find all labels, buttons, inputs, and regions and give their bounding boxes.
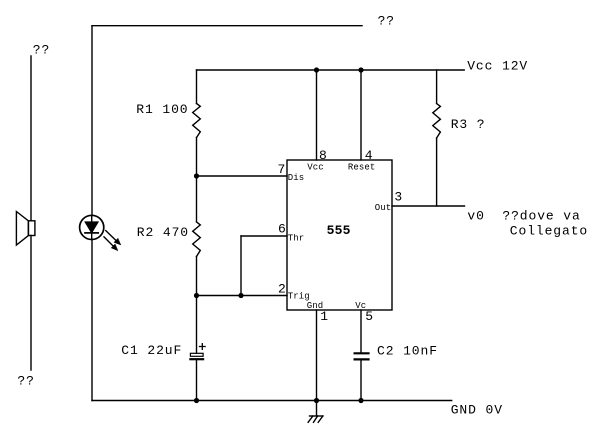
label 555 <box>327 223 351 238</box>
svg-text:5: 5 <box>365 309 374 324</box>
svg-text:555: 555 <box>327 223 351 238</box>
resistor R1 <box>193 104 201 138</box>
wire pin4 vertical <box>360 70 362 160</box>
pin 3 name Out <box>375 203 392 213</box>
node ??dove va label <box>502 209 580 224</box>
svg-text:2: 2 <box>278 282 287 297</box>
label R2 470 <box>137 225 189 240</box>
svg-text:C2 10nF: C2 10nF <box>377 344 438 359</box>
wire pin2 horizontal <box>197 295 288 297</box>
node junction dot rail gnd <box>314 398 319 403</box>
pin 2 name Trig <box>288 292 310 302</box>
svg-text:Out: Out <box>375 203 392 213</box>
pin 6 number <box>278 222 287 237</box>
node junction dot Vcc-pin8 <box>314 67 319 72</box>
pin 5 number <box>365 309 374 324</box>
svg-text:??: ?? <box>17 374 34 389</box>
svg-text:C1 22uF: C1 22uF <box>121 343 182 358</box>
wire LED branch vertical <box>91 26 93 401</box>
node ?? top label <box>378 14 395 29</box>
wire R3 branch top <box>436 70 438 104</box>
wire pin8 vertical <box>316 70 318 160</box>
wire pin3 out horizontal <box>392 205 465 207</box>
ground symbol <box>308 416 323 422</box>
label R3 ? <box>451 117 486 132</box>
wire pin7 to R1R2 branch <box>197 175 288 177</box>
node ?? speaker top label <box>33 43 50 58</box>
pin 6 name Thr <box>288 234 305 244</box>
svg-text:Trig: Trig <box>288 292 310 302</box>
node junction dot rail C1 <box>194 398 199 403</box>
node junction dot pin2 branch left <box>194 293 199 298</box>
svg-text:GND 0V: GND 0V <box>451 403 503 418</box>
svg-text:Thr: Thr <box>288 234 305 244</box>
wire R1 branch top <box>196 70 198 104</box>
label C1 22uF <box>121 343 182 358</box>
pin 1 name Gnd <box>307 301 324 311</box>
svg-text:Reset: Reset <box>348 162 376 172</box>
wire Vcc rail <box>197 69 465 71</box>
node junction dot pin2 Thr branch <box>238 293 243 298</box>
resistor R2 <box>193 222 201 257</box>
pin 5 name Vc <box>355 301 366 311</box>
capacitor C2 <box>355 353 369 359</box>
node Vcc 12V label <box>467 58 528 73</box>
pin 2 number <box>278 282 287 297</box>
LED D1 <box>80 215 121 250</box>
node ?? speaker bottom label <box>17 374 34 389</box>
node junction dot rail C2 <box>358 398 363 403</box>
label R1 100 <box>136 102 188 117</box>
svg-text:v0: v0 <box>467 209 484 224</box>
svg-text:Vcc: Vcc <box>307 162 324 172</box>
label C2 10nF <box>377 344 438 359</box>
wire speaker lower vertical <box>30 236 32 371</box>
svg-text:Vc: Vc <box>355 301 366 311</box>
pin 8 name Vcc <box>307 162 324 172</box>
node GND 0V label <box>451 403 503 418</box>
svg-text:Vcc 12V: Vcc 12V <box>467 58 528 73</box>
node Collegato label <box>510 224 588 239</box>
wire top dangling net <box>92 25 362 27</box>
svg-text:4: 4 <box>365 148 374 163</box>
svg-text:6: 6 <box>278 222 287 237</box>
wire pin5 vertical upper <box>360 310 362 353</box>
wire Thr branch vertical <box>240 236 242 296</box>
capacitor C1 <box>190 344 205 360</box>
wire between R1 and R2 <box>196 138 198 222</box>
pin 4 name Reset <box>348 162 376 172</box>
pin 7 number <box>278 162 287 177</box>
speaker LS1 <box>16 212 35 246</box>
svg-text:Gnd: Gnd <box>307 301 324 311</box>
pin 7 name Dis <box>288 173 305 183</box>
node junction dot pin7 branch <box>194 173 199 178</box>
resistor R3 <box>433 104 441 139</box>
svg-text:R1 100: R1 100 <box>136 102 188 117</box>
svg-text:3: 3 <box>394 190 403 205</box>
wire pin6 horizontal <box>241 235 287 237</box>
pin 4 number <box>365 148 374 163</box>
svg-text:R3 ?: R3 ? <box>451 117 486 132</box>
node junction dot Vcc-pin4 <box>358 67 363 72</box>
svg-text:??: ?? <box>33 43 50 58</box>
wire pin1 gnd vertical <box>316 310 318 416</box>
wire bottom ground rail <box>92 400 452 402</box>
svg-text:Collegato: Collegato <box>510 224 588 239</box>
svg-text:Dis: Dis <box>288 173 305 183</box>
wire speaker upper vertical <box>30 56 32 221</box>
node v0 label <box>467 209 484 224</box>
pin 8 number <box>319 148 328 163</box>
svg-text:??: ?? <box>378 14 395 29</box>
pin 1 number <box>320 309 329 324</box>
svg-text:??dove va: ??dove va <box>502 209 580 224</box>
op-amp U1 555 IC box <box>287 160 392 310</box>
wire C1 to rail <box>196 360 198 400</box>
svg-text:R2 470: R2 470 <box>137 225 189 240</box>
wire below R2 to C1 <box>196 257 198 354</box>
wire R3 branch bottom <box>436 138 438 206</box>
svg-text:8: 8 <box>319 148 328 163</box>
wire pin5 vertical lower <box>360 359 362 400</box>
svg-text:1: 1 <box>320 309 329 324</box>
svg-text:7: 7 <box>278 162 287 177</box>
pin 3 number <box>394 190 403 205</box>
